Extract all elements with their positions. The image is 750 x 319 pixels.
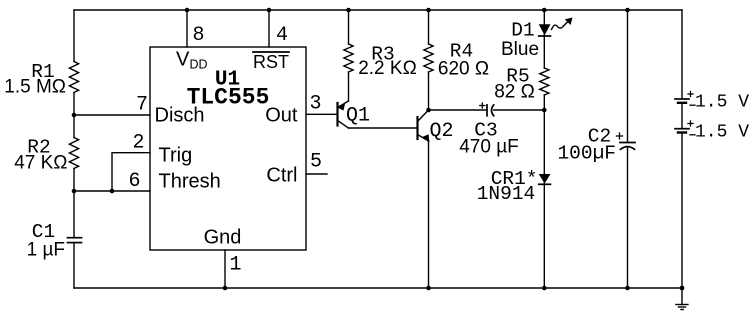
svg-text:4: 4 <box>276 24 288 47</box>
node junction R2/C1/pin6 wire <box>72 189 77 194</box>
resistor R4 <box>424 44 433 72</box>
diode CR1 <box>539 174 551 184</box>
svg-text:TLC555: TLC555 <box>187 85 270 111</box>
wire R3 to Q1 emitter <box>348 72 350 101</box>
svg-text:1 µF: 1 µF <box>27 240 65 261</box>
wire rail to R3 <box>348 10 350 44</box>
svg-text:Gnd: Gnd <box>204 227 242 249</box>
wire pin 4 <box>268 10 270 47</box>
op-amp U1 TLC555 box <box>150 47 306 250</box>
svg-text:3: 3 <box>309 93 321 116</box>
capacitor C3 <box>480 103 494 116</box>
node junction pin 1 on bottom rail <box>223 286 228 291</box>
node junction CR1 on bottom rail <box>542 286 547 291</box>
svg-text:2.2 KΩ: 2.2 KΩ <box>358 58 417 79</box>
svg-text:DD: DD <box>190 58 208 72</box>
svg-text:5: 5 <box>310 151 322 174</box>
svg-text:Q1: Q1 <box>346 105 370 128</box>
svg-text:Ctrl: Ctrl <box>266 165 297 187</box>
svg-text:620 Ω: 620 Ω <box>438 59 489 80</box>
svg-text:Thresh: Thresh <box>159 171 221 193</box>
node junction Q2 emitter on bottom rail <box>426 286 431 291</box>
node junction C2 on top rail <box>625 8 630 13</box>
svg-text:1N914: 1N914 <box>477 183 536 205</box>
ground <box>676 288 688 310</box>
wire left branch top (rail to R1) <box>73 10 75 62</box>
capacitor C2 <box>617 133 636 149</box>
wire pin 8 <box>186 10 188 47</box>
svg-text:47 KΩ: 47 KΩ <box>14 153 67 174</box>
node junction R4 on top rail <box>426 8 431 13</box>
wire bottom ground rail <box>74 287 682 289</box>
svg-text:1.5 V: 1.5 V <box>695 93 749 113</box>
node junction R3 on top rail <box>346 8 351 13</box>
wire Q2 collector to C3 <box>429 109 488 111</box>
wire R1 to R2 <box>73 93 75 138</box>
svg-text:470 µF: 470 µF <box>459 137 519 158</box>
node junction pin 4 on top rail <box>267 8 272 13</box>
svg-text:1: 1 <box>229 254 241 277</box>
wire pin 5 (Ctrl) stub <box>306 173 327 175</box>
wire cell1 to cell2 <box>681 103 683 128</box>
wire C1 to bottom rail <box>73 243 75 288</box>
battery cell 2 <box>675 121 695 135</box>
svg-text:1.5 V: 1.5 V <box>695 123 749 143</box>
svg-text:V: V <box>176 49 190 71</box>
wire C3 to R5 node <box>494 109 545 111</box>
wire pin 2 (Trig) with elbow <box>112 153 150 191</box>
svg-text:7: 7 <box>136 94 148 117</box>
resistor R1 <box>69 62 78 93</box>
battery cell 1 <box>675 92 695 106</box>
node junction battery/ground on bottom rail <box>680 286 685 291</box>
svg-text:RST: RST <box>253 52 289 72</box>
capacitor C1 <box>68 237 82 239</box>
node junction Trig/Thresh <box>110 189 115 194</box>
svg-text:Trig: Trig <box>159 145 193 167</box>
wire cell2 to bottom rail <box>681 133 683 288</box>
svg-text:Blue: Blue <box>501 39 539 60</box>
wire rail to R4 <box>428 10 430 44</box>
wire rail to LED D1 <box>543 10 545 68</box>
wire C2 to bottom rail <box>627 147 629 288</box>
node junction pin 8 on top rail <box>185 8 190 13</box>
wire pin 3 (Out) <box>306 113 338 115</box>
svg-text:Q2: Q2 <box>430 120 454 143</box>
wire Q1 collector to Q2 base <box>349 127 418 129</box>
wire R5 to CR1 <box>543 95 545 288</box>
svg-text:Out: Out <box>265 105 298 127</box>
wire R4 to Q2 collector node <box>428 72 430 110</box>
transistor Q2 (NPN) <box>418 110 430 142</box>
svg-text:2: 2 <box>132 132 144 155</box>
svg-text:6: 6 <box>128 170 140 193</box>
node junction C2 on bottom rail <box>625 286 630 291</box>
svg-text:82 Ω: 82 Ω <box>494 82 535 103</box>
wire pin 7 (Disch) <box>74 114 150 116</box>
node junction R1/R2/pin7 <box>72 113 77 118</box>
node Q2 collector junction <box>426 108 431 113</box>
wire pin 6 (Thresh) <box>74 190 150 192</box>
LED D1 <box>539 24 551 36</box>
node junction D1 on top rail <box>542 8 547 13</box>
resistor R5 <box>540 68 549 95</box>
svg-text:1.5 MΩ: 1.5 MΩ <box>4 77 66 98</box>
transistor Q1 (PNP) <box>338 101 349 128</box>
wire pin 1 (Gnd) <box>224 250 226 288</box>
resistor R3 <box>344 44 353 72</box>
wire Q2 emitter to bottom rail <box>428 141 430 288</box>
wire top supply rail <box>74 9 682 11</box>
wire rail to battery <box>681 10 683 99</box>
svg-text:100µF: 100µF <box>557 143 616 165</box>
resistor R2 <box>69 138 78 169</box>
LED emission arrow <box>552 18 573 30</box>
node C3/R5/CR1 junction <box>542 108 547 113</box>
svg-text:8: 8 <box>192 24 204 47</box>
wire rail to C2 <box>627 10 629 142</box>
wire R2 to C1 <box>73 169 75 238</box>
